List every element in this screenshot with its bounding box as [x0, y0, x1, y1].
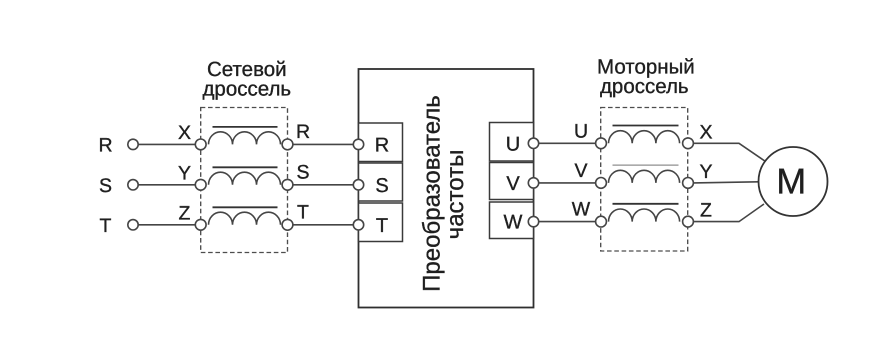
svg-text:T: T [376, 215, 388, 237]
network choke enclosure (dashed) [201, 108, 288, 253]
svg-text:M: M [776, 161, 806, 202]
converter input terminal R [353, 139, 363, 149]
input terminal R [128, 139, 138, 149]
converter input terminal block T [359, 203, 403, 242]
converter output terminal U [528, 138, 538, 148]
label "Сетевой дроссель" [202, 58, 291, 101]
wire choke R to converter [293, 143, 353, 145]
svg-text:Z: Z [179, 203, 191, 225]
inductor L3 core line [213, 206, 278, 208]
input terminal S [128, 180, 138, 190]
node S (network choke output) [282, 179, 293, 190]
converter output terminal block U [490, 123, 534, 162]
node Y (network choke input) [195, 179, 206, 190]
wire choke X to motor [693, 143, 764, 161]
motor choke enclosure (dashed) [601, 108, 688, 252]
converter input terminal block R [359, 123, 403, 162]
node R (network choke output) [282, 139, 293, 150]
node Z (network choke input) [195, 219, 206, 230]
frequency converter box [359, 69, 534, 308]
inductor L1 core line [213, 126, 278, 128]
svg-text:V: V [506, 173, 520, 195]
converter output terminal V [528, 178, 538, 188]
converter input terminal block S [359, 163, 403, 201]
svg-text:U: U [506, 133, 520, 155]
converter input terminal T [353, 220, 363, 230]
inductor L5 core line [613, 164, 679, 166]
node Y (motor choke output) [683, 178, 694, 189]
inductor L4 winding [609, 131, 680, 144]
wire input T to choke node [138, 224, 195, 226]
wire choke S to converter [293, 184, 353, 186]
wire converter V to motor choke [539, 182, 596, 184]
inductor L2 core line [213, 166, 278, 168]
inductor L4 core line [613, 125, 679, 127]
wire input S to choke node [138, 184, 195, 186]
converter output terminal W [528, 216, 538, 226]
wire choke Z to motor [693, 204, 764, 222]
inductor L1 winding [209, 132, 281, 145]
svg-text:частоты: частоты [442, 150, 469, 240]
svg-text:W: W [504, 212, 523, 234]
label "Преобразователь частоты" (rotated) [419, 95, 470, 292]
svg-text:X: X [178, 122, 191, 144]
svg-text:Y: Y [699, 161, 712, 183]
svg-text:R: R [98, 135, 112, 157]
node V (motor choke input) [596, 178, 607, 189]
node W (motor choke input) [596, 216, 607, 227]
svg-text:Z: Z [700, 200, 712, 222]
motor M [759, 147, 828, 216]
svg-text:R: R [296, 121, 310, 143]
svg-text:X: X [699, 121, 712, 143]
svg-text:Y: Y [178, 163, 191, 185]
node X (network choke input) [195, 139, 206, 150]
converter output terminal block W [490, 202, 534, 239]
svg-text:T: T [297, 201, 309, 223]
inductor L5 winding [609, 170, 680, 183]
input terminal T [128, 220, 138, 230]
wire converter U to motor choke [539, 142, 596, 144]
svg-text:дроссель: дроссель [600, 75, 689, 98]
svg-text:S: S [375, 175, 388, 197]
inductor L3 winding [209, 212, 281, 225]
svg-text:T: T [100, 215, 112, 237]
converter input terminal S [353, 180, 363, 190]
svg-text:S: S [99, 175, 112, 197]
inductor L6 core line [613, 203, 679, 205]
svg-text:V: V [574, 160, 587, 182]
svg-text:R: R [375, 134, 389, 156]
svg-text:S: S [296, 161, 309, 183]
node Z (motor choke output) [683, 216, 694, 227]
wire choke T to converter [293, 224, 353, 226]
wire choke Y to motor [693, 182, 758, 183]
wire input R to choke node [138, 143, 195, 145]
node T (network choke output) [282, 219, 293, 230]
svg-text:дроссель: дроссель [202, 77, 291, 100]
inductor L6 winding [609, 209, 680, 222]
inductor L2 winding [209, 172, 281, 185]
wire converter W to motor choke [539, 221, 596, 223]
svg-text:U: U [574, 120, 588, 142]
label "Моторный дроссель" [597, 56, 695, 99]
svg-text:W: W [572, 199, 591, 221]
node U (motor choke input) [596, 138, 607, 149]
converter output terminal block V [490, 163, 534, 200]
node X (motor choke output) [683, 138, 694, 149]
